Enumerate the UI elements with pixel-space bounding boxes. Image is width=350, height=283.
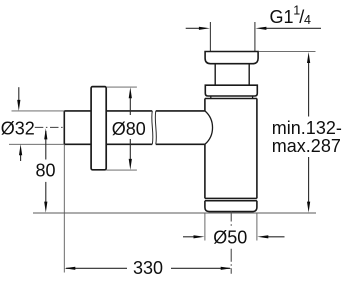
dimension Ø80 line upper with up arrow [129, 87, 132, 115]
dimension Ø50 right extension line [256, 214, 258, 241]
svg-text:G1: G1 [270, 7, 294, 27]
dimension G1 1/4 right arrow [255, 27, 321, 30]
dimension 80 line upper with up arrow [44, 128, 47, 159]
dimension Ø50 right arrow [257, 235, 284, 238]
label G1 1/4 [270, 3, 312, 27]
min-max top extension line [259, 51, 316, 53]
dimension 330 line left with left arrow [64, 267, 127, 270]
dimension Ø32 bottom extension line [9, 143, 64, 145]
bottom cap [205, 201, 257, 212]
dimension Ø50 left arrow [183, 235, 205, 238]
wall rosette flange [91, 87, 106, 170]
neck right wall [248, 64, 250, 85]
dimension 330 line right with right arrow [171, 267, 232, 270]
union nut [205, 52, 258, 64]
inlet tailpipe right wall [254, 22, 256, 52]
wall line extension [63, 144, 65, 272]
svg-text:max.287: max.287 [272, 136, 341, 156]
horizontal inlet pipe [64, 111, 205, 144]
svg-text:Ø80: Ø80 [112, 119, 146, 139]
min-max dimension line upper with up arrow [307, 52, 310, 117]
dimension 80 line lower with down arrow [44, 182, 47, 213]
dimension Ø32 bottom arrow [19, 144, 22, 161]
dimension Ø50 left extension line [204, 214, 206, 241]
inlet tailpipe left wall [209, 22, 211, 52]
bottom outlet extension line [33, 212, 316, 214]
inlet socket bulge arc [205, 111, 213, 144]
dimension Ø32 top arrow [17, 87, 20, 111]
dimension G1 1/4 left arrow [186, 27, 210, 30]
pipe break squiggle left [152, 111, 153, 144]
trap body outline [205, 96, 257, 198]
dimension Ø80 top extension line [106, 86, 137, 88]
body centerline upper [230, 211, 232, 226]
svg-text:330: 330 [133, 258, 163, 278]
svg-text:80: 80 [36, 161, 56, 181]
upper ring flange [205, 85, 257, 96]
pipe break squiggle right [155, 111, 156, 144]
svg-text:Ø50: Ø50 [213, 228, 247, 248]
min-max dimension line lower with down arrow [307, 157, 310, 213]
dimension Ø80 line lower with down arrow [129, 139, 132, 170]
svg-text:min.132-: min.132- [272, 118, 342, 138]
pipe centerline [35, 126, 65, 128]
neck left wall [214, 64, 216, 85]
svg-text:Ø32: Ø32 [1, 118, 35, 138]
dimension Ø80 bottom extension line [106, 169, 137, 171]
svg-text:4: 4 [304, 13, 311, 27]
dimension Ø32 top extension line [12, 110, 65, 112]
body centerline lower [230, 249, 232, 274]
